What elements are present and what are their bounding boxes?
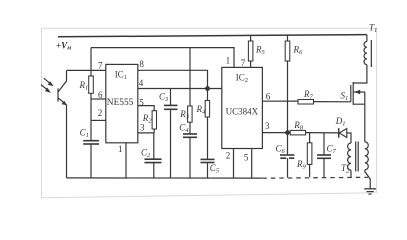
- svg-text:UC384X: UC384X: [226, 106, 259, 116]
- svg-text:3: 3: [265, 121, 270, 131]
- svg-text:7: 7: [241, 58, 246, 68]
- svg-text:2: 2: [226, 151, 231, 161]
- svg-text:3: 3: [140, 122, 145, 132]
- svg-text:8: 8: [139, 59, 144, 69]
- svg-text:2: 2: [98, 108, 103, 118]
- svg-text:6: 6: [266, 91, 271, 101]
- svg-text:5: 5: [139, 98, 144, 108]
- svg-text:4: 4: [139, 78, 144, 88]
- svg-text:7: 7: [98, 60, 103, 70]
- svg-text:6: 6: [98, 90, 103, 100]
- svg-text:1: 1: [226, 55, 231, 65]
- svg-text:1: 1: [118, 144, 123, 154]
- svg-text:NE555: NE555: [107, 98, 134, 108]
- svg-text:5: 5: [244, 153, 249, 163]
